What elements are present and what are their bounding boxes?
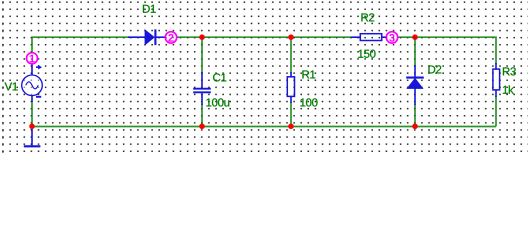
junction bottom D2 — [412, 124, 418, 130]
junction bottom R1 — [288, 124, 294, 130]
label D2 — [428, 65, 441, 73]
wire V1 lower — [31, 101, 33, 127]
V1 polarity arrow — [36, 66, 39, 68]
node 3 — [386, 32, 397, 43]
wire C1 upper — [201, 37, 203, 73]
grid overlay (editor draws grid on top) — [0, 0, 528, 156]
label C1 value 100u — [206, 98, 229, 106]
label R2 value 150 — [358, 50, 375, 58]
resistor R3 — [493, 63, 500, 97]
label V1 — [5, 82, 18, 90]
wire R1 lower — [290, 102, 292, 127]
resistor R1 — [287, 72, 294, 103]
wire R3 lower — [495, 96, 497, 127]
capacitor C1 — [193, 72, 211, 105]
label C1 — [213, 73, 226, 81]
junction bottom V1 — [29, 124, 35, 130]
zener diode D2 — [406, 65, 424, 105]
label R1 — [302, 70, 315, 78]
label R2 — [361, 13, 374, 21]
wire bottom rail — [32, 126, 496, 128]
junction top C1 — [199, 34, 205, 40]
node 1 — [27, 53, 38, 64]
junction top D2 — [412, 34, 418, 40]
resistor R2 — [351, 34, 387, 41]
wire top-left vertical from corner to node 1 — [32, 37, 128, 57]
sine source V1 — [22, 62, 43, 102]
wire R1 upper — [290, 37, 292, 73]
diode D1 — [128, 29, 166, 45]
wire top middle (node 2 to R2) — [176, 36, 351, 38]
ground — [24, 127, 41, 146]
node 2 — [165, 32, 176, 43]
page edge dashed line — [2, 1, 4, 156]
label R3 value 1K — [503, 85, 514, 93]
label R3 — [503, 67, 516, 75]
wire C1 lower — [201, 104, 203, 127]
label D1 — [143, 5, 156, 13]
junction bottom C1 — [199, 124, 205, 130]
wire D2 lower — [414, 104, 416, 127]
V1 minus mark — [36, 96, 41, 98]
wire D2 upper — [414, 37, 416, 66]
junction top R1 — [288, 34, 294, 40]
label R1 value 100 — [300, 98, 317, 106]
wire top right (node 3 to R3 corner) — [398, 37, 497, 64]
